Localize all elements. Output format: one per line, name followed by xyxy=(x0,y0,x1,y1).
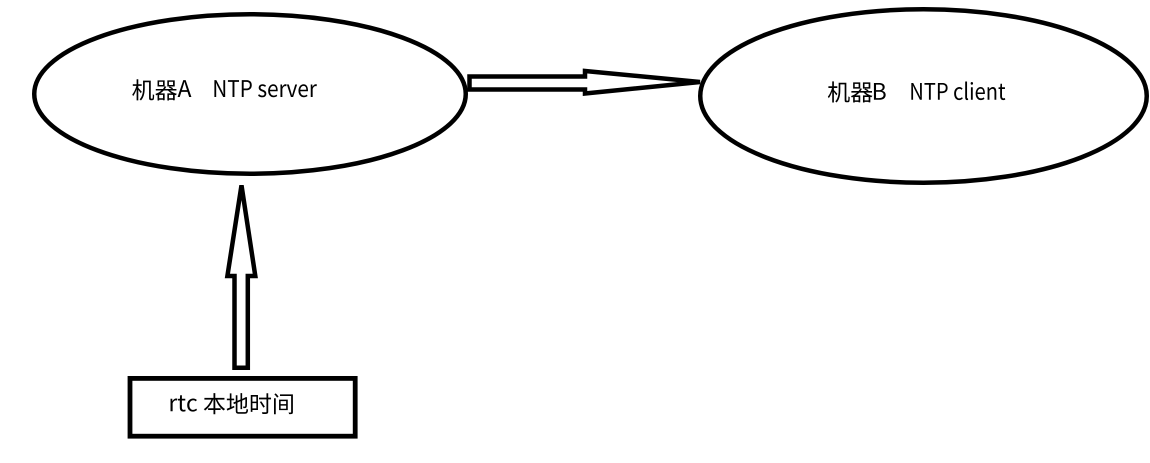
arrow: rtc local time feeds machine A xyxy=(227,185,255,367)
box: rtc local time xyxy=(130,378,355,436)
label: 机器B NTP client xyxy=(828,81,1005,102)
ellipse: machine A (NTP server) xyxy=(34,14,466,174)
ellipse: machine B (NTP client) xyxy=(700,9,1147,183)
label: 机器A NTP server xyxy=(132,79,317,100)
arrow: NTP sync from machine A to machine B xyxy=(470,71,701,94)
label: rtc 本地时间 xyxy=(171,393,293,414)
